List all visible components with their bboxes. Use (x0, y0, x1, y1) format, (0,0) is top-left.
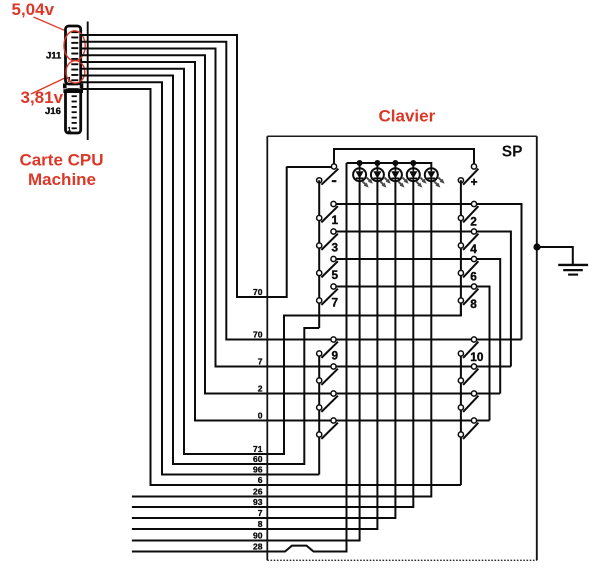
svg-text:Carte CPU: Carte CPU (19, 151, 103, 170)
switch 5 (317, 256, 339, 282)
minus-plus top bus (334, 149, 474, 164)
svg-text:2: 2 (258, 383, 263, 393)
switch 3 (317, 229, 339, 255)
row wire 3/4 (334, 232, 511, 367)
wire label 96 (253, 464, 263, 474)
svg-text:Clavier: Clavier (379, 107, 436, 126)
LED D5 (425, 168, 445, 187)
wire 26 (LED column 5) (132, 181, 431, 497)
label J16 (45, 106, 61, 117)
wire 8 (LED column 2) (132, 181, 378, 529)
wire 90 (LED column 1) (132, 181, 360, 541)
LED 2 feed stub (376, 163, 378, 168)
wire label 60 (253, 454, 263, 464)
svg-text:5: 5 (332, 268, 339, 282)
switch 8 (458, 284, 478, 311)
switch 10 (458, 337, 484, 364)
CPU board edge line (87, 22, 89, 141)
LED 1 feed stub (359, 163, 361, 168)
switch row2 left (317, 391, 338, 412)
wire label 7 (258, 508, 263, 518)
wire label 8 (258, 519, 263, 529)
svg-text:26: 26 (253, 486, 263, 496)
junction dot LED 2 (374, 160, 380, 166)
svg-text:1: 1 (332, 213, 339, 227)
switch minus (317, 164, 339, 185)
wire segment - switch top to row (287, 166, 332, 168)
switch row3 left (317, 418, 338, 439)
svg-text:28: 28 (253, 541, 263, 551)
svg-text:7: 7 (332, 296, 339, 310)
keyboard box SP (267, 136, 537, 560)
svg-text:0: 0 (258, 410, 263, 420)
label Clavier (379, 107, 436, 126)
svg-text:5,04v: 5,04v (12, 0, 55, 19)
wire label 6 (258, 475, 263, 485)
LED 3 feed stub (394, 163, 396, 168)
junction dot LED 4 (410, 160, 416, 166)
svg-text:J16: J16 (45, 106, 61, 117)
J16 pin 1 label (68, 127, 72, 134)
svg-text:6: 6 (258, 475, 263, 485)
svg-text:8: 8 (470, 297, 477, 311)
label J11 (46, 51, 62, 62)
voltage label 3,81v (21, 88, 64, 107)
wire 70 (row 9/10) (81, 42, 522, 340)
LED D2 (371, 168, 391, 187)
LED D1 (353, 168, 373, 187)
svg-text:7: 7 (258, 356, 263, 366)
switch 4 (458, 229, 478, 256)
switch plus (458, 164, 478, 189)
wire 96 (left column lower feed) (81, 82, 320, 474)
svg-text:3: 3 (332, 241, 339, 255)
J11 pin 1 label (68, 77, 72, 84)
svg-text:9: 9 (332, 349, 339, 363)
LED anode bus (347, 163, 432, 168)
junction dot LED 3 (392, 160, 398, 166)
switch row1 right (458, 364, 478, 385)
svg-text:+: + (471, 175, 478, 189)
right column upper (+,2,4,6,8 commons) (460, 180, 462, 315)
svg-text:70: 70 (253, 329, 263, 339)
switch 1 (317, 201, 339, 227)
svg-text:3,81v: 3,81v (21, 88, 64, 107)
wire 0 (row 15/16) (81, 62, 490, 421)
switch 6 (458, 256, 478, 283)
row wire 5/6 (334, 259, 501, 394)
row wire 1/2 (334, 204, 522, 340)
label Carte CPU (19, 151, 103, 170)
red ellipse around J11 upper pins (64, 31, 85, 61)
switch row3 right (458, 418, 478, 439)
connector J16 (63, 89, 83, 133)
switch row2 right (458, 391, 478, 412)
wire label 70 (253, 287, 263, 297)
svg-text:93: 93 (253, 497, 263, 507)
wire 28 (LED bus return, with hop) (132, 163, 347, 552)
switch row1 left (317, 364, 338, 385)
LED D4 (407, 168, 427, 187)
svg-text:J11: J11 (46, 51, 62, 62)
wire 60 (left column upper feed) (81, 76, 320, 465)
wire label 71 (253, 444, 263, 454)
wire 2 (row 13/14) (81, 55, 501, 393)
switch 2 (458, 201, 478, 228)
callout line to 3,81v (31, 77, 67, 94)
wire label 7 (258, 356, 263, 366)
ground symbol (558, 265, 588, 275)
svg-text:90: 90 (253, 530, 263, 540)
voltage label 5,04v (12, 0, 55, 19)
wire label 2 (258, 383, 263, 393)
wire 70 (pin1 J11 to - switch top) (81, 35, 287, 297)
svg-text:70: 70 (253, 287, 263, 297)
switch 9 (317, 337, 339, 363)
wire 6 (right column lower feed) (81, 89, 461, 485)
wire label 0 (258, 410, 263, 420)
LED D3 (389, 168, 409, 187)
svg-text:8: 8 (258, 519, 263, 529)
red ellipse around J11 lower pins (66, 61, 85, 83)
svg-text:6: 6 (470, 270, 477, 284)
wire label 28 (253, 541, 263, 551)
svg-text:10: 10 (470, 350, 484, 364)
svg-text:7: 7 (258, 508, 263, 518)
connector J11 (63, 26, 83, 88)
row wire 7/8 (334, 287, 490, 421)
svg-text:71: 71 (253, 444, 263, 454)
svg-text:Machine: Machine (28, 170, 96, 189)
wire 7 (row 11/12) (81, 49, 511, 367)
svg-text:4: 4 (470, 242, 477, 256)
callout line to 5,04v (34, 17, 66, 31)
wire 71 (right column upper feed) (81, 69, 461, 454)
svg-text:SP: SP (502, 144, 523, 161)
left column upper (-,1,3,5,7 commons) (318, 180, 320, 328)
wire 7 (LED column 3) (132, 181, 396, 518)
wire 93 (LED column 4) (132, 181, 413, 507)
svg-text:2: 2 (470, 215, 477, 229)
label Machine (28, 170, 96, 189)
wire label 90 (253, 530, 263, 540)
wire label 70 (253, 329, 263, 339)
wire label 93 (253, 497, 263, 507)
minus label (332, 180, 337, 182)
label SP (502, 144, 523, 161)
LED 4 feed stub (412, 163, 414, 168)
left column lower (9..15 commons) (318, 354, 320, 475)
svg-text:96: 96 (253, 464, 263, 474)
ground junction dot (533, 243, 540, 250)
svg-text:1: 1 (68, 127, 72, 134)
right column lower (10..16 commons) (460, 354, 462, 486)
switch 7 (317, 284, 339, 310)
wire label 26 (253, 486, 263, 496)
junction dot LED 1 (357, 160, 363, 166)
svg-text:60: 60 (253, 454, 263, 464)
ground wire (537, 247, 573, 264)
